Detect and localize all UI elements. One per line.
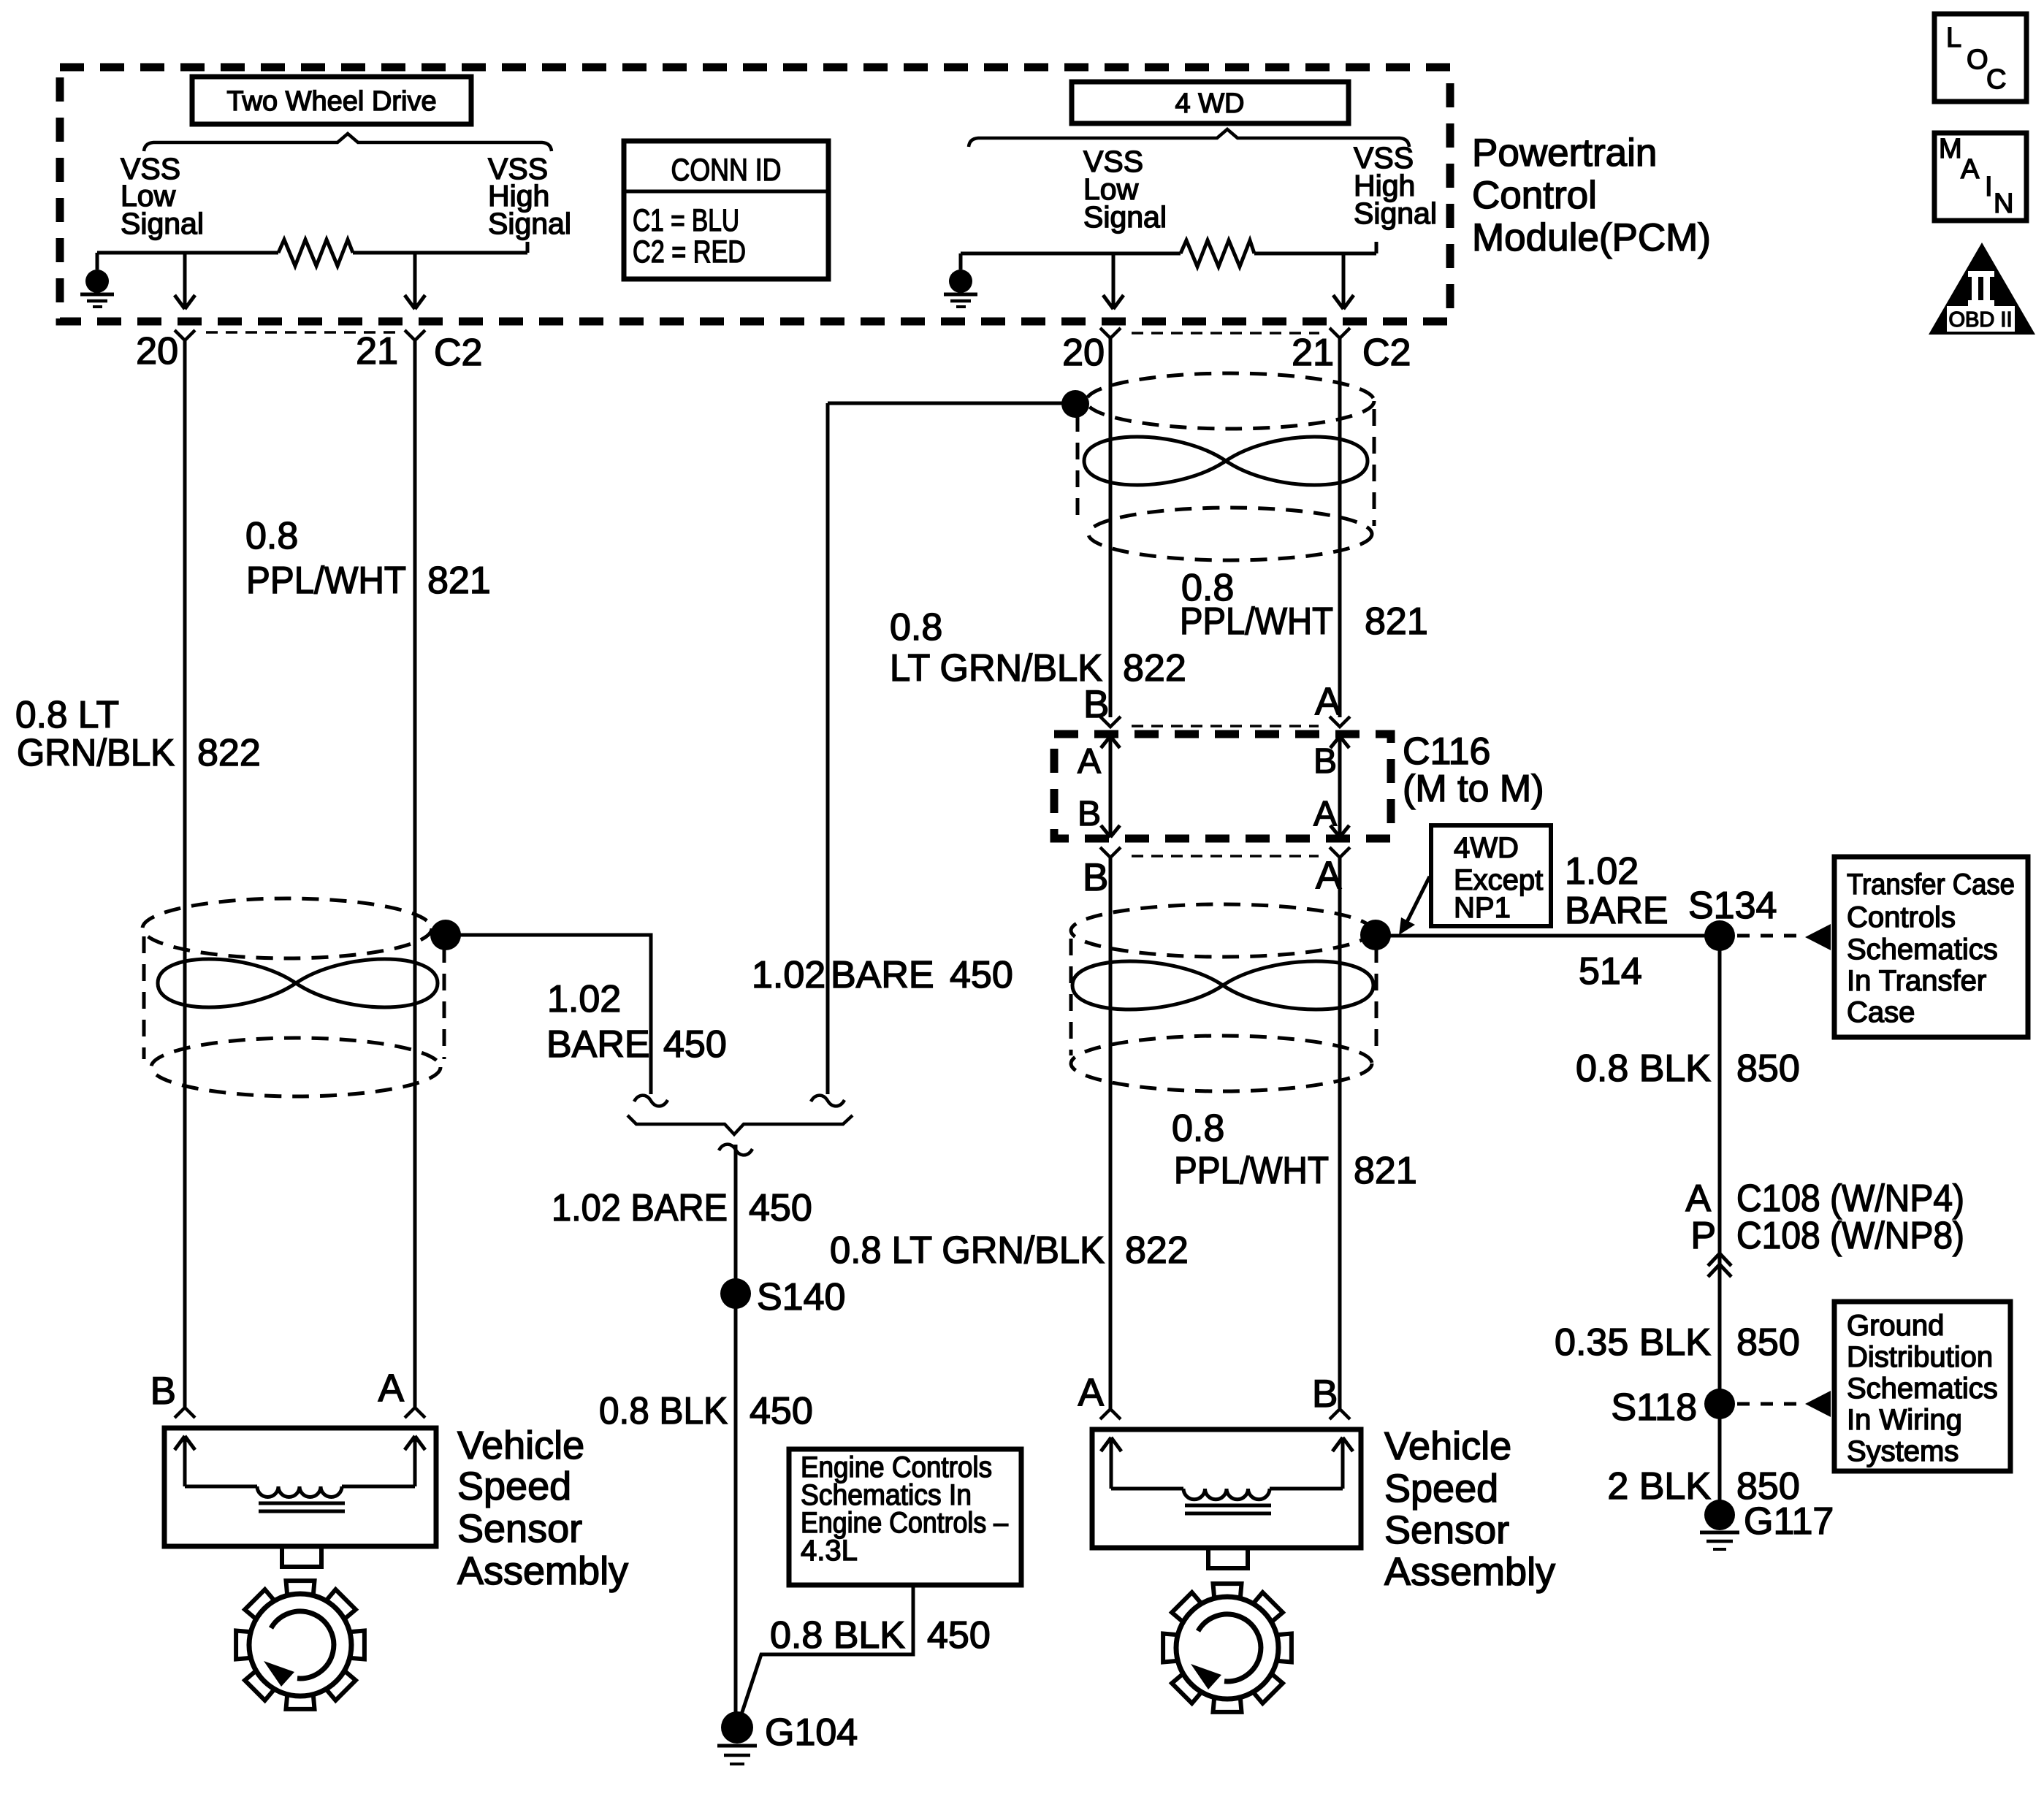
arrow to pin 20 (4WD) xyxy=(1103,253,1124,309)
svg-text:1.02: 1.02 xyxy=(752,954,825,996)
label 1.02 BARE 450 (upper drain) xyxy=(752,954,1013,996)
svg-text:A: A xyxy=(378,1367,405,1410)
svg-text:Systems: Systems xyxy=(1847,1435,1959,1467)
label Vehicle Speed Sensor Assembly (2WD) xyxy=(457,1424,628,1593)
C116 pass-through wire left xyxy=(1101,736,1120,837)
svg-text:Signal: Signal xyxy=(1083,200,1167,234)
svg-text:Controls: Controls xyxy=(1847,901,1956,933)
svg-text:Signal: Signal xyxy=(121,207,204,240)
legend MAIN box xyxy=(1934,133,2026,221)
svg-text:2 BLK: 2 BLK xyxy=(1607,1465,1711,1508)
shield twisted pair (2WD drain) xyxy=(142,898,444,1096)
svg-text:0.8 BLK: 0.8 BLK xyxy=(599,1390,728,1432)
arrow to pin 21 (2WD) xyxy=(405,253,425,309)
pin P C108 label xyxy=(1690,1215,1964,1257)
svg-text:0.8 LT GRN/BLK: 0.8 LT GRN/BLK xyxy=(830,1229,1105,1272)
connector chevrons below C116 xyxy=(1100,847,1350,858)
arrowhead to transfer case reference xyxy=(1805,924,1831,950)
ground internal 2WD xyxy=(80,270,114,307)
svg-text:Transfer Case: Transfer Case xyxy=(1847,868,2015,901)
svg-text:In Wiring: In Wiring xyxy=(1847,1404,1962,1436)
label 1.02 BARE 450 (combined) xyxy=(552,1187,812,1229)
svg-text:P: P xyxy=(1690,1215,1716,1257)
svg-text:C2 = RED: C2 = RED xyxy=(633,234,746,270)
svg-text:GRN/BLK: GRN/BLK xyxy=(17,732,175,774)
splice S118 xyxy=(1704,1389,1735,1419)
svg-text:0.8 LT: 0.8 LT xyxy=(15,694,119,736)
svg-text:A: A xyxy=(1313,795,1337,833)
svg-text:0.8 BLK: 0.8 BLK xyxy=(770,1614,905,1657)
svg-text:Signal: Signal xyxy=(1354,196,1437,230)
label box 4 WD xyxy=(1072,82,1349,123)
wire 821 PPL/WHT (4WD upper) xyxy=(1338,338,1342,717)
svg-text:1.02: 1.02 xyxy=(1565,850,1639,893)
svg-text:BARE: BARE xyxy=(1565,890,1669,932)
label VSS High Signal (4WD) xyxy=(1354,141,1437,230)
svg-text:Assembly: Assembly xyxy=(457,1549,628,1593)
dashed link to ground distribution reference xyxy=(1737,1402,1799,1406)
svg-text:A: A xyxy=(1078,742,1101,781)
svg-text:1.02 BARE: 1.02 BARE xyxy=(552,1187,728,1229)
connector chevrons at 2WD sensor xyxy=(175,1408,425,1418)
reference box Ground Distribution xyxy=(1834,1302,2010,1471)
svg-text:B: B xyxy=(150,1370,176,1413)
svg-text:C108 (W/NP8): C108 (W/NP8) xyxy=(1736,1215,1964,1257)
wire 822 LT GRN/BLK (4WD lower) xyxy=(1109,858,1113,1408)
pin A C108 label xyxy=(1685,1177,1964,1220)
svg-text:514: 514 xyxy=(1579,950,1642,993)
svg-text:C116: C116 xyxy=(1403,730,1490,773)
svg-text:450: 450 xyxy=(663,1023,727,1066)
resistor R2 (4WD VSS bias) xyxy=(1181,240,1254,267)
wire 850 BLK (S134 to G117) xyxy=(1718,936,1722,1515)
reference box Transfer Case Controls xyxy=(1834,857,2028,1037)
wire 450 BLK from engine controls xyxy=(738,1585,913,1725)
wire break symbol (right drain) xyxy=(811,1096,844,1107)
label Powertrain Control Module(PCM) xyxy=(1472,131,1711,259)
svg-text:A: A xyxy=(1315,680,1341,723)
svg-text:L: L xyxy=(1946,23,1961,53)
ground G117 xyxy=(1700,1500,1834,1549)
svg-text:I: I xyxy=(1985,172,1993,202)
pin labels inside C116 xyxy=(1078,742,1337,833)
label 0.8 LT GRN/BLK 822 (lower) xyxy=(830,1229,1189,1272)
label box 4WD Except NP1 xyxy=(1431,825,1551,926)
splice S134 xyxy=(1704,920,1735,951)
svg-text:S140: S140 xyxy=(757,1276,845,1318)
svg-text:BARE: BARE xyxy=(546,1023,650,1066)
svg-text:G104: G104 xyxy=(765,1711,858,1754)
svg-text:821: 821 xyxy=(427,560,491,602)
legend OBD II triangle xyxy=(1929,243,2035,335)
svg-text:21: 21 xyxy=(356,330,398,373)
svg-text:LT GRN/BLK: LT GRN/BLK xyxy=(890,647,1102,690)
shield twisted pair (4WD lower) xyxy=(1071,904,1376,1091)
svg-text:C: C xyxy=(1986,64,2006,95)
svg-text:4 WD: 4 WD xyxy=(1175,88,1245,119)
shield twisted pair (4WD upper) xyxy=(1078,373,1374,560)
wire 514 BARE to S134 xyxy=(1376,934,1720,938)
labels 1.02 BARE 514 S134 xyxy=(1565,850,1777,993)
svg-text:Speed: Speed xyxy=(1384,1467,1498,1511)
resistor R1 (2WD VSS bias) xyxy=(278,240,353,266)
svg-text:Speed: Speed xyxy=(457,1465,571,1508)
svg-text:821: 821 xyxy=(1354,1150,1417,1192)
reluctor gear wheel (4WD) xyxy=(1163,1584,1292,1712)
svg-text:C1 = BLU: C1 = BLU xyxy=(633,203,739,238)
arrow from 4WD Except NP1 to wire xyxy=(1406,877,1430,923)
svg-text:4WD: 4WD xyxy=(1454,832,1519,864)
svg-text:Schematics: Schematics xyxy=(1847,1372,1998,1405)
node splice on 2WD shield xyxy=(430,920,461,950)
svg-text:0.8: 0.8 xyxy=(1172,1107,1224,1150)
inline connector C108 chevrons xyxy=(1708,1253,1731,1277)
C116 pass-through wire right xyxy=(1330,736,1349,837)
label 0.8 BLK 450 (engine controls leg) xyxy=(770,1614,991,1657)
arrow to pin 20 (2WD) xyxy=(175,253,195,309)
PCM module U1 (Powertrain Control Module) dashed outline xyxy=(60,67,1450,321)
svg-text:OBD II: OBD II xyxy=(1948,308,2012,332)
svg-text:S118: S118 xyxy=(1611,1386,1697,1429)
reluctor gear wheel (2WD) xyxy=(236,1581,365,1709)
node splice on 4WD upper shield xyxy=(1061,390,1089,418)
connector row pins 20 21 C2 (2WD) xyxy=(136,330,482,374)
svg-text:Control: Control xyxy=(1472,174,1597,217)
svg-text:Vehicle: Vehicle xyxy=(457,1424,584,1467)
svg-text:C2: C2 xyxy=(1362,332,1411,374)
wire 450 BLK to G104 xyxy=(734,1145,738,1727)
svg-text:M: M xyxy=(1939,134,1962,164)
label 0.8 PPL/WHT 821 xyxy=(245,515,491,602)
svg-text:822: 822 xyxy=(197,732,261,774)
wire 822 LT GRN/BLK (4WD upper) xyxy=(1109,338,1113,717)
svg-text:NP1: NP1 xyxy=(1454,892,1511,924)
svg-text:0.8: 0.8 xyxy=(245,515,298,557)
ground G104 xyxy=(717,1711,858,1764)
svg-text:20: 20 xyxy=(1062,332,1105,374)
svg-text:Sensor: Sensor xyxy=(457,1507,582,1551)
brace joining drains xyxy=(628,1115,853,1134)
svg-text:450: 450 xyxy=(750,1390,813,1432)
label 0.35 BLK 850 xyxy=(1555,1321,1800,1364)
label 0.8 PPL/WHT 821 (lower) xyxy=(1172,1107,1417,1192)
dashed link to transfer case reference xyxy=(1737,934,1799,938)
svg-text:C2: C2 xyxy=(434,332,482,374)
svg-text:B: B xyxy=(1083,856,1108,899)
svg-text:450: 450 xyxy=(927,1614,991,1657)
label 0.8 LT GRN/BLK 822 xyxy=(15,694,261,774)
svg-text:822: 822 xyxy=(1123,647,1186,690)
svg-text:BARE: BARE xyxy=(831,954,934,996)
label box Two Wheel Drive xyxy=(192,77,471,124)
node splice on 4WD lower shield S134 drain xyxy=(1360,920,1391,950)
svg-text:A: A xyxy=(1078,1371,1105,1414)
svg-text:PPL/WHT: PPL/WHT xyxy=(1180,600,1333,643)
svg-text:O: O xyxy=(1967,45,1988,75)
connector C116 (M to M) dashed box xyxy=(1054,734,1391,839)
label 0.8 PPL/WHT 821 (upper) xyxy=(1180,567,1428,643)
svg-text:450: 450 xyxy=(950,954,1013,996)
svg-text:G117: G117 xyxy=(1744,1500,1834,1543)
svg-text:B: B xyxy=(1312,1372,1338,1416)
svg-text:822: 822 xyxy=(1125,1229,1189,1272)
wire drain 450 from 4WD shield (upper) xyxy=(828,403,1069,1094)
svg-text:CONN ID: CONN ID xyxy=(671,153,782,188)
svg-text:20: 20 xyxy=(136,330,178,373)
wire internal 2WD bus xyxy=(97,242,527,270)
label C116 (M to M) xyxy=(1403,730,1544,810)
wire break symbol (left drain) xyxy=(634,1096,668,1107)
svg-text:Sensor: Sensor xyxy=(1384,1508,1509,1552)
svg-text:0.35 BLK: 0.35 BLK xyxy=(1555,1321,1711,1364)
connector chevrons above C116 xyxy=(1100,717,1350,727)
svg-text:A: A xyxy=(1961,154,1980,185)
legend LOC box xyxy=(1934,14,2026,102)
brace for 4 WD group xyxy=(969,129,1409,147)
svg-text:N: N xyxy=(1994,188,2013,219)
svg-text:850: 850 xyxy=(1736,1047,1800,1090)
label 1.02 BARE 450 (2WD drain) xyxy=(546,978,727,1066)
wire drain 450 from 2WD shield xyxy=(446,935,651,1094)
wire 821 PPL/WHT (2WD, pin 21 to sensor A) xyxy=(413,340,417,1407)
wire 822 LT GRN/BLK (2WD, pin 20 to sensor B) xyxy=(183,340,187,1407)
svg-text:821: 821 xyxy=(1365,600,1428,643)
svg-text:450: 450 xyxy=(749,1187,812,1229)
svg-text:Schematics: Schematics xyxy=(1847,933,1998,966)
svg-text:0.8 BLK: 0.8 BLK xyxy=(1576,1047,1711,1090)
svg-text:B: B xyxy=(1078,795,1101,833)
reference box Engine Controls Schematics xyxy=(789,1449,1021,1585)
svg-text:Module(PCM): Module(PCM) xyxy=(1472,216,1711,259)
connector row pins 20 21 C2 (4WD) xyxy=(1062,328,1411,374)
svg-text:Assembly: Assembly xyxy=(1384,1550,1555,1594)
wire internal 4WD bus xyxy=(961,242,1376,270)
VSS sensor assembly box (2WD) xyxy=(164,1428,436,1567)
label VSS Low Signal (4WD) xyxy=(1083,145,1167,234)
svg-text:PPL/WHT: PPL/WHT xyxy=(1174,1150,1329,1192)
svg-text:Two Wheel Drive: Two Wheel Drive xyxy=(226,86,436,117)
svg-text:1.02: 1.02 xyxy=(547,978,621,1020)
svg-text:4.3L: 4.3L xyxy=(801,1535,858,1567)
svg-text:Distribution: Distribution xyxy=(1847,1341,1993,1373)
wire 821 PPL/WHT (4WD lower) xyxy=(1338,858,1342,1408)
ground internal 4WD xyxy=(944,270,977,307)
svg-text:(M to M): (M to M) xyxy=(1403,768,1544,810)
svg-text:850: 850 xyxy=(1736,1321,1800,1364)
svg-text:Vehicle: Vehicle xyxy=(1384,1424,1511,1468)
label 0.8 LT GRN/BLK 822 (upper) xyxy=(890,606,1186,690)
svg-text:A: A xyxy=(1685,1177,1711,1220)
wire break symbol (combined drain) xyxy=(719,1145,752,1156)
table CONN ID xyxy=(624,141,828,279)
svg-text:In Transfer: In Transfer xyxy=(1847,965,1986,997)
label 2 BLK 850 xyxy=(1607,1465,1799,1508)
svg-text:PPL/WHT: PPL/WHT xyxy=(246,560,406,602)
VSS sensor assembly box (4WD) xyxy=(1092,1429,1361,1568)
svg-text:C108 (W/NP4): C108 (W/NP4) xyxy=(1736,1177,1964,1220)
svg-text:B: B xyxy=(1313,742,1337,781)
svg-text:Ground: Ground xyxy=(1847,1310,1944,1342)
splice S140 xyxy=(720,1278,751,1309)
svg-text:Powertrain: Powertrain xyxy=(1472,131,1657,175)
label 0.8 BLK 850 xyxy=(1576,1047,1800,1090)
svg-text:S134: S134 xyxy=(1688,885,1777,927)
arrowhead to ground distribution reference xyxy=(1805,1391,1831,1417)
label VSS High Signal (2WD) xyxy=(488,152,571,240)
svg-text:Signal: Signal xyxy=(488,207,571,240)
label 0.8 BLK 450 xyxy=(599,1390,813,1432)
svg-text:0.8: 0.8 xyxy=(890,606,942,649)
svg-text:Case: Case xyxy=(1847,996,1915,1028)
svg-text:21: 21 xyxy=(1292,332,1334,374)
label Vehicle Speed Sensor Assembly (4WD) xyxy=(1384,1424,1555,1594)
connector chevrons at 4WD sensor xyxy=(1100,1409,1350,1419)
brace for Two Wheel Drive group xyxy=(144,134,552,151)
arrow to pin 21 (4WD) xyxy=(1333,253,1354,309)
label VSS Low Signal (2WD) xyxy=(121,152,204,240)
